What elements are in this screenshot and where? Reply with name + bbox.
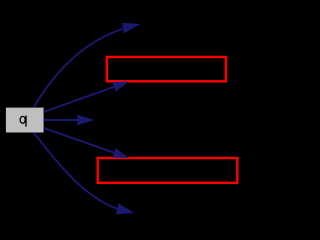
node box 2 (red outline, lower) [98,158,238,183]
edge q to top node (curved wire) [34,28,125,107]
edge q to bottom node (curved wire) [34,133,118,209]
node box 1 (red outline, upper) [107,57,226,81]
edge q to box 2 (wire) [44,128,114,153]
arrowhead to box 1 [112,82,129,92]
edge q to box 1 (wire) [44,87,114,112]
arrowhead top [122,23,141,33]
arrowhead to box 2 [112,148,129,158]
node q (gray box) [6,108,44,133]
edge q to middle node (wire) [44,119,78,121]
arrowhead middle [77,115,94,126]
arrowhead bottom [116,203,134,214]
